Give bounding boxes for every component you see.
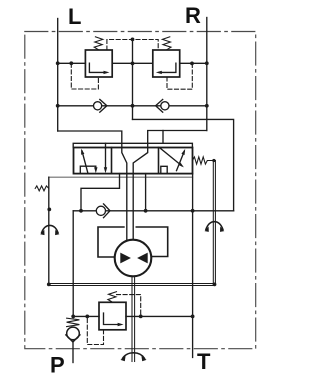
node: rail junction b — [144, 209, 148, 213]
check valve right (ball and seat) — [161, 102, 169, 110]
relief valve left spring — [94, 37, 103, 50]
node: rail junction a — [79, 209, 83, 213]
wire: bridge line above valve — [73, 143, 192, 147]
svg-text:R: R — [185, 3, 201, 28]
wire: R port line — [206, 18, 208, 131]
node: P line junction — [71, 315, 75, 319]
node: left shaft corner — [47, 283, 51, 287]
valve left position: U path with down arrow — [80, 166, 96, 173]
node: L line / mid rail junction — [56, 61, 60, 65]
gerotor loop — [98, 227, 124, 257]
inlet relief spring — [108, 292, 117, 302]
gerotor triangles — [120, 253, 131, 264]
gerotor metering circle — [115, 240, 152, 277]
node: lower pilot junction — [85, 315, 89, 319]
wire: relief mid rail y=63.3 — [58, 62, 86, 64]
rotation arrow right — [206, 222, 223, 230]
wire: center vertical from vent to mid rail and down — [132, 39, 134, 119]
directional control valve outline (3 positions) — [74, 148, 193, 174]
node: right pilot tap — [190, 62, 194, 66]
node: center check junction — [131, 104, 135, 108]
wire: metering lines to gerotor — [126, 174, 128, 242]
valve left position: straight down arrow — [105, 148, 107, 170]
svg-text:P: P — [50, 353, 65, 378]
pilot line dashed: inlet relief lower pilot — [87, 316, 103, 344]
wire: tank bypass staircase right — [133, 119, 234, 210]
wire: suction rail y=210.8 — [73, 210, 96, 212]
wire: left box top stub — [105, 143, 107, 147]
wire: relief inlet line — [73, 315, 99, 317]
node: L check junction — [56, 104, 60, 108]
valve center position: funnel passage — [122, 148, 127, 174]
spring left (centering) — [35, 186, 49, 191]
wire: P internal line — [72, 211, 74, 318]
rotation arrow bottom (steering column) — [123, 353, 145, 359]
wire: P port stem — [72, 342, 74, 363]
inlet check valve ball — [67, 327, 80, 340]
node: rail T junction — [191, 209, 195, 213]
wire: tank rail below valve — [49, 176, 193, 178]
relief valve right box — [153, 50, 180, 77]
node: spring to shaft corner — [212, 159, 215, 162]
node: right shaft corner — [213, 283, 217, 287]
svg-text:T: T — [197, 349, 211, 374]
valve right position: crossed arrows — [160, 148, 181, 165]
relief valve left internal arrow — [89, 63, 106, 72]
wire: L port line — [57, 19, 59, 132]
wire: anti-cavitation check line y=106 — [58, 105, 207, 107]
relief valve right spring — [162, 37, 171, 50]
inlet relief valve box — [99, 302, 126, 330]
inlet relief internal arrow — [104, 313, 120, 325]
valve right position: blocked port bracket — [161, 166, 167, 173]
relief valve right internal arrow — [159, 63, 176, 72]
node: outlet T junction — [191, 315, 195, 319]
pilot line dashed: left relief spring vent — [107, 40, 158, 51]
wire: valve port B descender — [145, 174, 147, 211]
check valve left (ball and seat) — [94, 102, 102, 110]
wire: mechanical link line left — [48, 177, 50, 284]
pilot line dashed: right relief lower pilot loop — [167, 63, 192, 89]
node: vent junction — [139, 315, 143, 319]
wire: valve port A descender — [81, 174, 120, 211]
svg-text:L: L — [68, 4, 81, 29]
inlet check valve spring — [67, 318, 80, 326]
rotation arrow left — [42, 225, 58, 232]
wire: relief outlet line to T — [126, 315, 193, 317]
valve left position: diagonal arrow — [82, 151, 88, 173]
enclosure boundary (dash-dot) — [25, 32, 256, 349]
wire: R staircase to valve — [148, 131, 207, 148]
mechanical shaft gerotor (double line) — [131, 276, 133, 361]
spring right of valve — [193, 157, 216, 164]
node: vent line center — [131, 38, 135, 42]
inlet check valve seat — [66, 335, 80, 342]
node: center rail junction — [131, 62, 135, 66]
relief valve left box — [85, 50, 112, 77]
node: R check junction — [205, 104, 209, 108]
node: link line dot — [47, 208, 51, 212]
pilot line dashed: left relief lower pilot loop — [71, 63, 98, 89]
mechanical shaft right (double line) — [212, 161, 214, 284]
wire: L staircase to valve — [58, 131, 122, 148]
node: left pilot tap — [69, 61, 73, 65]
mechanical rail (double line) — [49, 283, 215, 285]
pilot line dashed: inlet relief vent — [117, 295, 141, 317]
node: R line / mid rail junction — [205, 61, 209, 65]
wire: T line from valve to port — [192, 174, 194, 358]
wire: right stub to bridge — [162, 131, 164, 144]
check valve mid (ball and seat) — [96, 206, 105, 215]
